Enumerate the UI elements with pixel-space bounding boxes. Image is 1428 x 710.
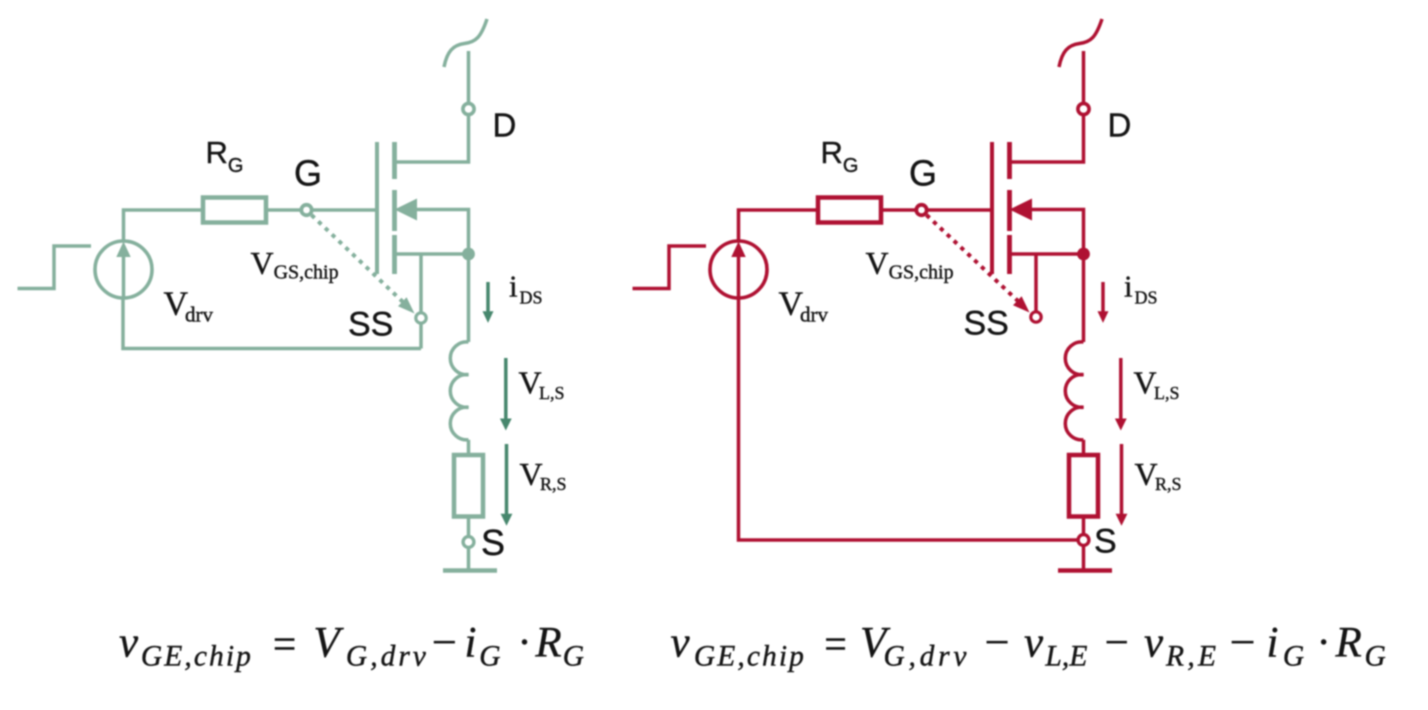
MOSFET M2 source lead (right) (1010, 252, 1084, 256)
voltage source V_drv (right) (710, 241, 767, 298)
SS stub from source lead (left) (419, 254, 423, 312)
svg-text:S: S (481, 522, 505, 563)
svg-text:iDS: iDS (1124, 269, 1158, 308)
current arrow i_DS (left) (483, 282, 494, 323)
junction source/body (right) (1077, 248, 1090, 261)
ground bar (right) (1058, 568, 1112, 573)
label R_G (left) (206, 135, 244, 177)
label D (left) (493, 107, 517, 144)
wire-break squiggle at drain (left) (444, 19, 487, 67)
node D terminal (right) (1078, 103, 1089, 114)
MOSFET M2 body arrow (right) (1010, 199, 1033, 221)
node D terminal (left) (463, 103, 474, 114)
inductor L_S (right) (1065, 342, 1083, 440)
ground stub (left) (467, 548, 471, 571)
wire: junction down to inductor (right) (1082, 254, 1086, 342)
resistor RG (left) (203, 198, 266, 223)
voltage arrow V_L,S (right) (1115, 358, 1127, 431)
equation left: v_GE,chip = V_G,drv - i_G * R_G (119, 620, 584, 673)
svg-text:RG: RG (206, 135, 244, 177)
node SS terminal (right) (1031, 312, 1041, 322)
label SS (right) (964, 305, 1009, 343)
svg-text:VL,S: VL,S (1134, 365, 1180, 403)
wire: node G to MOSFET gate (right) (927, 208, 992, 212)
ground stub (right) (1082, 546, 1086, 571)
driver return bottom wire (right) (739, 298, 1078, 540)
svg-text:S: S (1094, 523, 1117, 561)
label S (left) (481, 522, 505, 563)
svg-text:G: G (909, 153, 937, 194)
svg-text:vGE,chip=VG,drv−iG·RG: vGE,chip=VG,drv−iG·RG (119, 620, 584, 673)
svg-text:iDS: iDS (509, 269, 543, 308)
svg-text:SS: SS (348, 306, 393, 344)
node S terminal (right) (1078, 535, 1089, 546)
MOSFET M2 body lead to drain-source rail (right) (1031, 210, 1084, 250)
MOSFET M1 drain lead + wire up to D (left) (395, 51, 469, 162)
ground bar (left) (443, 568, 497, 573)
label V_GS,chip (left) (251, 245, 339, 284)
resistor R_S (right) (1069, 455, 1098, 517)
dotted gate-source measurement arrow (right) (927, 215, 1030, 313)
label V_GS,chip (right) (866, 245, 954, 284)
wire: RG to node G (right) (881, 208, 916, 212)
svg-text:VGS,chip: VGS,chip (866, 245, 954, 284)
MOSFET M1 body arrow (left) (395, 199, 418, 221)
SS stub from source lead (right) (1034, 254, 1038, 311)
step input symbol (left) (18, 246, 92, 289)
label SS (left) (348, 306, 393, 344)
inductor L_S (left) (450, 342, 468, 440)
MOSFET M1 source lead (left) (395, 252, 469, 256)
node G terminal (right) (916, 205, 926, 215)
wire: RG to node G (left) (266, 208, 301, 212)
svg-text:RG: RG (821, 135, 859, 177)
svg-text:SS: SS (964, 305, 1009, 343)
node G terminal (left) (301, 205, 311, 215)
label S (right) (1094, 523, 1117, 561)
label R_G (right) (821, 135, 859, 177)
wire-break squiggle at drain (right) (1059, 19, 1102, 67)
junction source/body (left) (462, 248, 475, 261)
equation right: v_GE,chip = V_G,drv - v_L,E - v_R,E - i_G * R_G (671, 620, 1386, 673)
svg-text:D: D (1108, 107, 1132, 144)
label D (right) (1108, 107, 1132, 144)
label V_drv (right) (779, 286, 829, 327)
resistor R_S (left) (454, 455, 483, 517)
step input symbol (right) (633, 246, 707, 289)
label V_L,S (right) (1134, 365, 1180, 403)
MOSFET M1 channel dashes (left) (392, 142, 397, 274)
current arrow i_DS (right) (1098, 282, 1109, 323)
wire: R_S to node S (left) (467, 517, 471, 537)
svg-text:VR,S: VR,S (520, 456, 567, 494)
wire: SS node to driver return (left) (419, 324, 423, 349)
label G (right) (909, 153, 937, 194)
MOSFET M2 drain lead + wire up to D (right) (1010, 51, 1084, 162)
svg-text:G: G (294, 153, 322, 194)
voltage arrow V_R,S (right) (1116, 444, 1128, 526)
wire: R_S to node S (right) (1082, 517, 1086, 535)
label i_DS (right) (1124, 269, 1158, 308)
node S terminal (left) (463, 537, 474, 548)
wire: junction down to inductor (left) (467, 254, 471, 342)
label V_R,S (right) (1135, 456, 1182, 494)
svg-text:VGS,chip: VGS,chip (251, 245, 339, 284)
svg-text:VR,S: VR,S (1135, 456, 1182, 494)
voltage arrow V_L,S (left) (500, 358, 512, 431)
resistor RG (right) (818, 198, 881, 223)
node SS terminal (left) (416, 313, 426, 323)
svg-text:Vdrv: Vdrv (779, 286, 829, 327)
svg-text:VL,S: VL,S (519, 365, 565, 403)
label V_L,S (left) (519, 365, 565, 403)
wire: source top to resistor RG (left) (124, 210, 204, 241)
wire: inductor to resistor R_S (right) (1082, 440, 1086, 455)
wire: inductor to resistor R_S (left) (467, 440, 471, 455)
voltage source V_drv (left) (95, 241, 152, 298)
MOSFET M1 body lead to drain-source rail (left) (416, 210, 469, 250)
MOSFET M2 channel dashes (right) (1007, 142, 1012, 274)
label i_DS (left) (509, 269, 543, 308)
label V_drv (left) (164, 286, 214, 327)
voltage arrow V_R,S (left) (501, 444, 513, 526)
MOSFET M2 gate plate (right) (990, 142, 994, 274)
dotted gate-source measurement arrow (left) (312, 215, 415, 314)
label G (left) (294, 153, 322, 194)
svg-text:Vdrv: Vdrv (164, 286, 214, 327)
driver return bottom wire (left) (123, 299, 421, 349)
wire: node G to MOSFET gate (left) (312, 208, 377, 212)
wire: source top to resistor RG (right) (739, 210, 819, 241)
label V_R,S (left) (520, 456, 567, 494)
svg-text:vGE,chip=VG,drv−vL,E−vR,E−iG·R: vGE,chip=VG,drv−vL,E−vR,E−iG·RG (671, 620, 1386, 673)
svg-text:D: D (493, 107, 517, 144)
MOSFET M1 gate plate (left) (375, 142, 379, 274)
